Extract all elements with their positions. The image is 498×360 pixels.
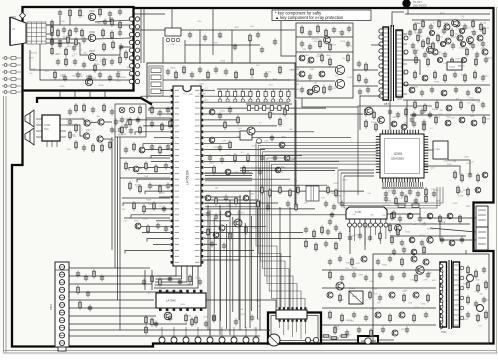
horizontal driver parts <box>257 185 345 212</box>
transistor Q902 <box>88 31 95 42</box>
sync separator parts <box>205 195 249 250</box>
svg-text:KEY: KEY <box>388 190 393 192</box>
svg-text:R437: R437 <box>331 44 337 46</box>
filter ladder C311-C316 <box>246 104 292 111</box>
svg-text:Q901: Q901 <box>89 10 96 13</box>
tuner IF IC180 <box>276 307 307 339</box>
wire bus U401 <box>123 90 364 288</box>
CRT board outline <box>23 7 134 91</box>
wire legend stub <box>281 21 296 56</box>
horizontal drive block <box>296 23 378 98</box>
AC fuse F801 <box>361 338 376 344</box>
transistor Q601 <box>84 120 90 126</box>
svg-text:2SC945: 2SC945 <box>130 75 138 77</box>
connector P801 <box>49 262 69 351</box>
connector P901/P902 <box>129 17 139 84</box>
microcontroller IC901 <box>376 130 428 182</box>
main IC U401 LA76810 <box>171 86 204 266</box>
svg-text:IC902: IC902 <box>435 149 442 151</box>
svg-text:2SC945: 2SC945 <box>363 227 371 229</box>
svg-text:C607: C607 <box>80 118 86 120</box>
micom block outline <box>358 106 432 195</box>
SMPS transformer T801 <box>439 260 464 334</box>
main block outline <box>147 63 295 207</box>
interconnect wires <box>55 8 476 340</box>
standby supply parts <box>388 211 470 255</box>
CRT socket V1 <box>10 17 46 46</box>
svg-text:IC901: IC901 <box>394 152 403 156</box>
vertical stage support parts <box>142 274 216 335</box>
transistor Q302 <box>164 312 172 320</box>
connector harness wires <box>69 268 187 324</box>
svg-text:▲ key component for x-ray prot: ▲ key component for x-ray protection <box>275 15 344 20</box>
wire IF-to-tuner bus <box>112 137 120 330</box>
IF discriminator T201 <box>240 131 262 144</box>
svg-text:IC601: IC601 <box>44 124 51 127</box>
resistor network R901-R904 <box>46 20 53 56</box>
svg-text:C208: C208 <box>213 147 219 149</box>
decoupling parts row <box>163 65 290 80</box>
transistor Q604 <box>97 136 103 142</box>
svg-text:FR80: FR80 <box>371 309 377 311</box>
driver transformer T301 <box>306 186 319 201</box>
svg-text:47K: 47K <box>423 279 427 281</box>
connector J101 external <box>2 57 21 94</box>
degauss thermistor TH801 <box>321 335 349 340</box>
vertical deflection IC301 <box>156 290 206 311</box>
svg-text:TDA: TDA <box>44 128 49 131</box>
vertical output IC451 <box>346 207 388 245</box>
tuning pot VR301 <box>268 334 280 346</box>
audio amplifier IC601 <box>36 115 66 147</box>
node corner pad <box>20 13 26 19</box>
svg-text:KEY: KEY <box>475 190 480 192</box>
transistor Q602 <box>98 119 104 125</box>
svg-text:2SC945: 2SC945 <box>427 229 435 231</box>
svg-text:V1: V1 <box>12 27 16 31</box>
photocoupler IC805 <box>349 288 363 304</box>
B+ regulator parts <box>405 8 490 67</box>
signal bus center <box>205 173 258 237</box>
secondary rectifier parts <box>466 265 488 323</box>
svg-text:KEY: KEY <box>466 206 471 208</box>
svg-text:IC803: IC803 <box>449 67 456 69</box>
svg-text:2SC945: 2SC945 <box>382 205 390 207</box>
svg-text:T801: T801 <box>441 331 447 334</box>
connector P501 <box>476 206 488 227</box>
svg-text:2SC945: 2SC945 <box>30 52 38 54</box>
AC inlet box <box>358 336 378 344</box>
tuner shield box <box>268 313 321 344</box>
net labels strip <box>297 69 300 91</box>
bus loop protection network <box>240 168 443 208</box>
SMPS primary parts field <box>322 256 440 338</box>
transistor Q901 <box>88 10 95 21</box>
flyback transformer T444 <box>379 12 408 106</box>
svg-text:R245: R245 <box>159 192 165 194</box>
connector P502 <box>476 227 488 250</box>
svg-text:2SC: 2SC <box>67 46 72 48</box>
svg-text:Q902: Q902 <box>89 31 96 34</box>
wire stubs A-B <box>60 91 105 98</box>
svg-text:FR80: FR80 <box>352 296 358 298</box>
svg-text:2SC945: 2SC945 <box>237 213 245 215</box>
speaker SP2 <box>25 128 34 145</box>
audio section parts <box>66 103 128 153</box>
EEPROM IC902 <box>433 141 448 159</box>
IF coupling parts <box>146 105 172 132</box>
svg-text:2SC945: 2SC945 <box>119 77 127 79</box>
power block outline <box>373 254 489 343</box>
filter ladder C301-C310 <box>217 89 295 102</box>
vertical/east parts field <box>403 70 490 126</box>
svg-text:LA76810A: LA76810A <box>186 169 190 185</box>
transistor Q903 <box>88 50 95 61</box>
video/chroma parts field <box>208 107 291 176</box>
transistor Q904 <box>85 75 92 86</box>
2nd anode cap <box>402 0 427 8</box>
svg-text:IC451: IC451 <box>355 211 362 214</box>
vertical bus to tuner <box>208 205 258 330</box>
svg-text:2ND ANODE: 2ND ANODE <box>413 5 427 8</box>
svg-text:Q903: Q903 <box>89 50 96 53</box>
svg-text:FR10: FR10 <box>440 13 446 15</box>
speaker SP1 <box>25 110 34 127</box>
svg-text:47K: 47K <box>425 316 429 318</box>
svg-text:2SC945: 2SC945 <box>414 33 422 35</box>
transistor Q203 <box>247 127 255 135</box>
svg-text:SDA555X: SDA555X <box>391 157 404 161</box>
svg-text:47K: 47K <box>432 280 436 282</box>
svg-text:2SC945: 2SC945 <box>198 94 206 96</box>
svg-text:P801: P801 <box>49 303 53 310</box>
audio board edge <box>37 98 152 105</box>
svg-text:2SC945: 2SC945 <box>458 65 466 67</box>
svg-text:FBT: FBT <box>384 102 389 106</box>
svg-text:R815: R815 <box>437 37 443 39</box>
micom support parts <box>384 170 488 208</box>
SAW filter block Z201 <box>115 104 146 137</box>
IC803 regulator <box>447 62 462 70</box>
sync processing parts <box>120 142 170 234</box>
tuner shield pads <box>305 337 318 342</box>
legend note box <box>272 10 371 21</box>
transistor Q603 <box>83 133 89 139</box>
svg-text:FR10: FR10 <box>427 52 433 54</box>
svg-text:2SC945: 2SC945 <box>451 36 459 38</box>
vertical stage parts <box>304 210 400 252</box>
bus to micom left pins <box>256 143 378 309</box>
svg-text:LA7840: LA7840 <box>166 299 176 303</box>
reset circuit parts <box>365 107 433 132</box>
degauss / switch parts <box>135 8 295 63</box>
svg-text:47K: 47K <box>408 303 412 305</box>
video amplifier parts cluster <box>30 7 131 81</box>
svg-text:2SC945: 2SC945 <box>311 38 319 40</box>
key switch block S601 <box>149 66 163 96</box>
bottom solder pads <box>151 315 259 344</box>
